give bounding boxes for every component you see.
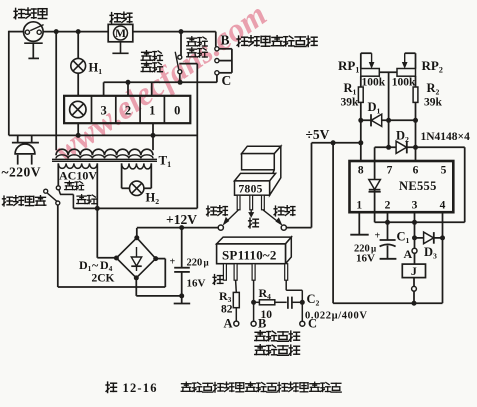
svg-text:7805: 7805 [239, 183, 263, 195]
svg-text:NE555: NE555 [399, 179, 437, 193]
svg-text:+: + [170, 257, 176, 268]
svg-text:12-16: 12-16 [123, 381, 158, 395]
svg-text:8: 8 [358, 165, 364, 177]
svg-text:M: M [115, 28, 126, 40]
svg-text:÷5V: ÷5V [306, 127, 330, 142]
svg-text:~220V: ~220V [2, 165, 42, 180]
svg-text:100k: 100k [362, 77, 386, 89]
svg-text:A: A [224, 317, 233, 331]
svg-text:6: 6 [413, 165, 419, 177]
svg-text:10: 10 [261, 309, 273, 321]
svg-text:AC10V: AC10V [59, 169, 97, 183]
svg-text:1N4148×4: 1N4148×4 [421, 131, 471, 143]
svg-text:2: 2 [385, 200, 391, 212]
svg-text:1: 1 [356, 200, 362, 212]
svg-text:0: 0 [174, 104, 180, 118]
svg-text:7: 7 [387, 165, 393, 177]
svg-text:B: B [221, 33, 230, 48]
svg-text:39k: 39k [424, 97, 443, 109]
svg-text:2CK: 2CK [92, 273, 115, 285]
svg-text:5: 5 [441, 165, 447, 177]
svg-text:82: 82 [221, 304, 233, 316]
svg-text:C: C [222, 73, 232, 88]
svg-text:16V: 16V [187, 278, 206, 290]
svg-text:16V: 16V [356, 253, 375, 265]
svg-text:1: 1 [149, 104, 155, 118]
svg-text:0.022µ/400V: 0.022µ/400V [305, 311, 368, 322]
svg-text:3: 3 [100, 104, 106, 118]
svg-text:µ: µ [204, 258, 210, 268]
svg-text:4: 4 [440, 200, 446, 212]
svg-text:SP1110~2: SP1110~2 [222, 247, 277, 262]
svg-text:+12V: +12V [166, 212, 197, 227]
svg-text:2: 2 [125, 104, 131, 118]
svg-text:+: + [375, 231, 381, 242]
svg-text:~: ~ [92, 258, 99, 272]
svg-text:220: 220 [187, 258, 203, 269]
svg-text:39k: 39k [341, 97, 360, 109]
svg-text:3: 3 [412, 200, 418, 212]
svg-text:J: J [411, 264, 417, 278]
svg-text:A: A [404, 247, 413, 261]
